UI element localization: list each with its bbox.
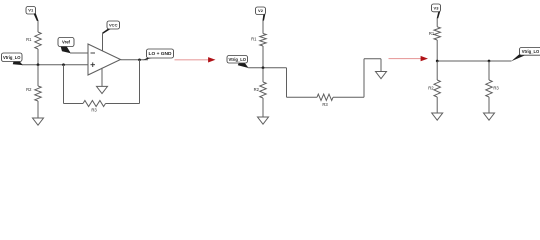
wire node xyxy=(248,67,286,69)
junction output xyxy=(138,58,141,61)
svg-text:Vtrig_LO: Vtrig_LO xyxy=(3,55,21,60)
ground xyxy=(258,117,269,124)
svg-text:R3: R3 xyxy=(91,108,97,113)
svg-text:V2: V2 xyxy=(258,8,264,13)
svg-text:Vtrig_LO: Vtrig_LO xyxy=(522,49,540,54)
feedback wire down xyxy=(139,60,141,104)
ground xyxy=(376,72,387,79)
wire node to R2 xyxy=(37,65,39,86)
wire Vref to minus input xyxy=(70,52,88,54)
junction xyxy=(488,60,491,63)
wire corner down xyxy=(286,68,288,98)
svg-text:V3: V3 xyxy=(434,5,440,10)
resistor R2 xyxy=(260,82,266,98)
junction xyxy=(436,60,439,63)
resistor R1 xyxy=(260,34,266,47)
op-amp VCC pin xyxy=(102,33,104,51)
resistor R1 xyxy=(434,27,440,40)
wire input node xyxy=(22,64,88,66)
wire top right xyxy=(364,58,381,60)
resistor R2 xyxy=(434,80,440,97)
feedback wire bottom left xyxy=(64,103,84,105)
wire R1 to node xyxy=(37,49,39,65)
resistor R3 xyxy=(486,80,492,97)
svg-text:Vref: Vref xyxy=(62,40,71,45)
voltage label V3 xyxy=(437,11,441,19)
ground xyxy=(432,113,443,120)
junction xyxy=(62,63,65,66)
wire up xyxy=(363,59,365,98)
wire to R3 xyxy=(287,96,318,98)
power label VCC xyxy=(102,29,111,34)
ground pin xyxy=(380,59,382,72)
op-amp gnd pin xyxy=(101,68,103,87)
net flag Vtrig_LO xyxy=(13,61,23,65)
net flag Vtrig_LO xyxy=(511,54,526,61)
svg-text:R3: R3 xyxy=(322,102,328,107)
svg-text:R1: R1 xyxy=(251,36,257,41)
resistor R2 xyxy=(35,86,41,101)
svg-text:R2: R2 xyxy=(428,85,434,90)
svg-text:R3: R3 xyxy=(493,85,499,90)
wire R3 right xyxy=(333,96,364,98)
wire node to R2 xyxy=(436,61,438,80)
red arrow 1 xyxy=(175,59,209,61)
feedback wire bottom right xyxy=(106,103,140,105)
net flag Vtrig_LO xyxy=(238,63,249,68)
wire V3 to R1 xyxy=(436,19,438,27)
voltage label V2 xyxy=(263,14,266,21)
svg-text:R2: R2 xyxy=(254,87,260,92)
svg-text:R2: R2 xyxy=(26,87,32,92)
svg-text:R1: R1 xyxy=(26,37,32,42)
wire node to R3 xyxy=(488,61,490,80)
feedback wire up xyxy=(63,65,65,104)
wire output xyxy=(121,59,149,61)
svg-text:VCC: VCC xyxy=(109,22,118,27)
junction xyxy=(37,63,40,66)
net flag LO + GND xyxy=(143,58,154,61)
resistor R3 xyxy=(317,94,333,100)
svg-text:Vtrig_LO: Vtrig_LO xyxy=(229,57,247,62)
wire R1 to node xyxy=(262,46,264,68)
ground xyxy=(97,86,108,93)
op-amp U1 xyxy=(88,44,121,75)
resistor R1 xyxy=(35,32,41,49)
wire node xyxy=(437,60,511,62)
wire R2 to gnd xyxy=(37,101,39,118)
junction xyxy=(262,66,265,69)
red arrow 2 xyxy=(389,58,422,60)
voltage label V1 xyxy=(33,13,38,21)
wire R1 to node xyxy=(436,40,438,61)
net label Vref xyxy=(61,46,71,53)
wire R2 to gnd xyxy=(436,97,438,113)
resistor R3 xyxy=(83,101,106,107)
svg-text:V1: V1 xyxy=(28,8,34,13)
svg-text:R1: R1 xyxy=(429,31,435,36)
wire R2 to gnd xyxy=(262,98,264,117)
ground xyxy=(484,113,495,120)
wire R3 to gnd xyxy=(488,97,490,113)
ground xyxy=(33,118,44,125)
svg-text:LO + GND: LO + GND xyxy=(149,51,172,56)
wire node to R2 xyxy=(262,68,264,82)
wire V1 to R1 xyxy=(37,21,39,33)
wire V2 to R1 xyxy=(262,21,264,34)
